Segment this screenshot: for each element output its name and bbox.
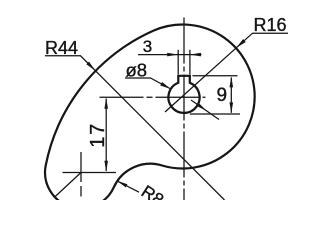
svg-text:R8: R8 bbox=[138, 181, 168, 200]
hole Ø8 with keyway bbox=[168, 76, 199, 113]
cam outline: R44 arc, R16 arc, hump arc, R8 arc bbox=[45, 24, 255, 208]
svg-text:R44: R44 bbox=[45, 38, 78, 58]
svg-text:3: 3 bbox=[143, 37, 152, 56]
dim 9 bbox=[230, 78, 232, 113]
centerline vertical through hole bbox=[183, 18, 185, 201]
centerline horizontal through hole bbox=[100, 96, 206, 98]
construction radius line from R8 center bbox=[55, 173, 81, 198]
dim 17 bbox=[105, 99, 107, 172]
svg-text:R16: R16 bbox=[254, 15, 287, 35]
svg-text:17: 17 bbox=[87, 122, 109, 148]
centerline vertical through R8 center bbox=[80, 152, 82, 197]
svg-text:9: 9 bbox=[217, 85, 228, 106]
centerline horizontal through R8 center bbox=[63, 172, 117, 174]
radius direction line with arrow bbox=[191, 100, 219, 120]
leader R8 bbox=[117, 181, 139, 192]
dim 3 bbox=[138, 54, 202, 56]
svg-text:ø8: ø8 bbox=[126, 59, 148, 80]
